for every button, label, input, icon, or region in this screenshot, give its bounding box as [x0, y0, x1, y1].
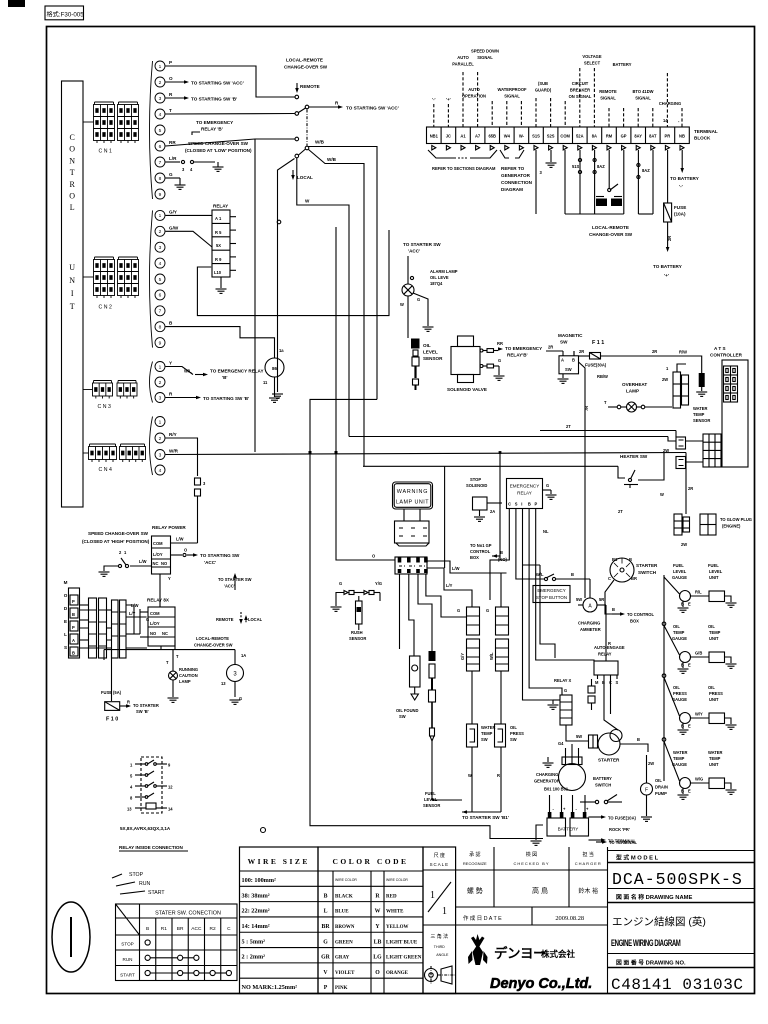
svg-text:BR: BR [321, 924, 330, 930]
svg-text:A T S: A T S [714, 346, 726, 351]
svg-text:BATTERY: BATTERY [558, 827, 579, 832]
wire control->CN2 [83, 276, 94, 278]
svg-text:GAUGE: GAUGE [672, 575, 687, 580]
S2S ground wire [550, 150, 552, 162]
svg-text:L/Y: L/Y [446, 583, 453, 588]
svg-text:SW: SW [399, 714, 406, 719]
svg-text:A7: A7 [475, 134, 481, 139]
svg-text:B: B [612, 607, 615, 612]
terminal block [427, 127, 690, 144]
svg-text:2: 2 [159, 229, 162, 235]
svg-text:A1: A1 [460, 134, 466, 139]
relay bottom ground [220, 277, 222, 288]
svg-text:9: 9 [159, 340, 162, 346]
emergency relay pin wires [508, 512, 510, 553]
svg-text:6: 6 [159, 293, 162, 299]
svg-text:SW: SW [565, 367, 572, 372]
svg-text:WIRE COLOR: WIRE COLOR [335, 878, 357, 882]
svg-text:DRAIN: DRAIN [655, 785, 668, 790]
connector CN2 [94, 260, 115, 296]
model connectors B [112, 600, 119, 658]
svg-text:WATERPROOF: WATERPROOF [497, 87, 527, 92]
wire pin6 RR [166, 139, 256, 146]
bus line B [349, 436, 668, 438]
svg-text:B: B [72, 612, 75, 617]
svg-text:YELLOW: YELLOW [386, 925, 409, 930]
svg-text:'ACC': 'ACC' [408, 249, 420, 254]
wire control->CN4 [83, 452, 89, 454]
svg-text:LEVEL: LEVEL [423, 350, 438, 355]
svg-text:CN1: CN1 [99, 149, 114, 155]
refer to generator connection diagram brace [500, 150, 509, 158]
svg-text:MAGNETIC: MAGNETIC [558, 333, 583, 338]
svg-text:GUARD): GUARD) [535, 88, 552, 93]
svg-text:RELAY INSIDE CONNECTION: RELAY INSIDE CONNECTION [119, 845, 183, 850]
svg-text:B: B [637, 737, 640, 742]
svg-text:REMOTE: REMOTE [300, 84, 320, 89]
svg-text:B: B [629, 557, 632, 562]
svg-text:RECOGNIZE: RECOGNIZE [463, 861, 487, 866]
svg-text:22: 22mm²: 22: 22mm² [242, 908, 270, 915]
svg-text:OIL LEVE: OIL LEVE [430, 275, 449, 280]
svg-text:(CLOSED AT 'LOW' POSITION): (CLOSED AT 'LOW' POSITION) [185, 148, 252, 153]
alarm lamp [402, 284, 414, 296]
wire G/W pin2 CN2 [166, 231, 213, 247]
svg-text:BREAKER: BREAKER [570, 88, 590, 93]
svg-text:B: B [528, 502, 531, 507]
svg-text:WATER: WATER [708, 750, 723, 755]
svg-text:L10: L10 [214, 270, 222, 275]
svg-text:RELAY'B': RELAY'B' [507, 353, 528, 358]
svg-text:RUSH: RUSH [351, 630, 363, 635]
title block model [608, 850, 756, 852]
svg-text:6: 6 [159, 144, 162, 150]
svg-text:O: O [375, 970, 380, 976]
svg-text:格式:F30-005: 格式:F30-005 [47, 11, 85, 19]
svg-text:LEVEL: LEVEL [673, 569, 687, 574]
oil found sw [410, 656, 421, 687]
svg-text:螺 勢: 螺 勢 [467, 886, 483, 895]
svg-text:CN2: CN2 [99, 305, 114, 311]
emergency relay ground [543, 489, 552, 491]
svg-text:M: M [595, 680, 599, 685]
svg-text:G: G [457, 608, 460, 613]
svg-text:W-: W- [519, 134, 525, 139]
svg-text:9: 9 [159, 192, 162, 198]
svg-text:L/W: L/W [176, 537, 184, 542]
svg-text:(ENGINE): (ENGINE) [722, 524, 741, 529]
svg-text:TEMP: TEMP [693, 412, 705, 417]
wires lamp unit to connector [403, 509, 405, 521]
svg-text:'ACC': 'ACC' [224, 584, 235, 589]
wire W [297, 158, 349, 437]
svg-text:SCALE: SCALE [430, 862, 449, 867]
svg-text:38: 38mm²: 38: 38mm² [242, 892, 270, 899]
svg-text:TEMP: TEMP [709, 630, 721, 635]
svg-text:GAUGE: GAUGE [672, 697, 687, 702]
relay power COM wire [171, 542, 198, 544]
svg-text:CHARGING: CHARGING [578, 621, 600, 626]
oil press sw [500, 671, 502, 724]
wire starter B [620, 744, 648, 752]
svg-text:SW: SW [560, 340, 568, 345]
svg-text:3: 3 [159, 245, 162, 251]
svg-text:3: 3 [159, 452, 162, 458]
svg-text:8: 8 [159, 176, 162, 182]
svg-text:TO EMERGENCY: TO EMERGENCY [196, 120, 233, 125]
svg-text:NL: NL [543, 529, 549, 534]
svg-text:LAMP UNIT: LAMP UNIT [396, 500, 429, 506]
wire W/B upper [309, 147, 378, 400]
svg-text:TO No1 GP: TO No1 GP [470, 543, 492, 548]
svg-text:4: 4 [159, 261, 162, 267]
starter wires [604, 679, 618, 730]
svg-text:L/Y: L/Y [129, 611, 136, 616]
svg-text:B: B [572, 358, 575, 363]
svg-text:BOX: BOX [630, 619, 639, 624]
svg-text:1A: 1A [241, 653, 246, 658]
svg-text:三 角 法: 三 角 法 [430, 933, 448, 940]
svg-text:NB1: NB1 [430, 134, 439, 139]
svg-text:B1: B1 [612, 557, 618, 562]
svg-text:SENSOR: SENSOR [423, 803, 440, 808]
svg-text:2T: 2T [618, 509, 623, 514]
svg-text:NO: NO [150, 631, 157, 636]
svg-text:4: 4 [159, 112, 162, 118]
svg-text:1: 1 [442, 906, 447, 917]
running caution lamp [169, 671, 178, 680]
svg-text:A: A [72, 638, 75, 643]
fuel level sensor [429, 651, 436, 661]
svg-text:A: A [561, 358, 564, 363]
svg-text:鈴木 裕: 鈴木 裕 [578, 887, 598, 895]
svg-text:8AZ: 8AZ [597, 164, 605, 169]
svg-text:COM: COM [150, 611, 160, 616]
svg-text:8AZ: 8AZ [642, 168, 650, 173]
water temp sensor [699, 373, 705, 387]
svg-text:SIGNAL: SIGNAL [477, 55, 493, 60]
svg-text:UNIT: UNIT [709, 697, 719, 702]
svg-text:STARTER: STARTER [598, 758, 620, 763]
svg-text:SIGNAL: SIGNAL [504, 94, 520, 99]
svg-text:14: 14mm²: 14: 14mm² [242, 923, 270, 930]
svg-text:G: G [498, 358, 501, 363]
svg-text:図 面 名 称 DRAWING NAME: 図 面 名 称 DRAWING NAME [616, 893, 692, 901]
svg-text:L/OY: L/OY [153, 552, 163, 557]
svg-text:RR: RR [497, 341, 503, 346]
svg-text:Y: Y [169, 361, 172, 366]
svg-text:W/B: W/B [327, 157, 337, 162]
svg-text:LIGHT BLUE: LIGHT BLUE [386, 940, 418, 945]
svg-text:STATER SW. CONECTION: STATER SW. CONECTION [155, 911, 221, 917]
svg-text:S: S [64, 645, 67, 650]
warning lamp connector upper [395, 521, 430, 543]
wire control->CN3 [83, 389, 93, 391]
svg-text:図 面 番 号 DRAWING NO.: 図 面 番 号 DRAWING NO. [616, 959, 686, 967]
svg-text:8A: 8A [592, 134, 597, 139]
svg-text:OIL: OIL [708, 624, 715, 629]
corner scan mark [8, 0, 25, 7]
svg-text:B: B [72, 651, 75, 656]
svg-text:PRESS: PRESS [510, 731, 524, 736]
svg-text:UNIT: UNIT [709, 762, 719, 767]
svg-text:2: 2 [159, 436, 162, 442]
svg-text:TO STARTER: TO STARTER [133, 703, 159, 708]
svg-text:EMERGENCY: EMERGENCY [510, 484, 540, 489]
svg-text:T: T [169, 108, 172, 113]
svg-text:14: 14 [168, 807, 173, 812]
svg-text:'-': '-' [432, 97, 435, 102]
water temp sw [471, 671, 473, 724]
svg-text:SW 'B': SW 'B' [136, 709, 149, 714]
key switch ellipse [52, 902, 90, 972]
svg-text:FUSE (5A): FUSE (5A) [101, 690, 122, 695]
svg-text:S: S [616, 680, 619, 685]
scale block [423, 847, 456, 994]
svg-text:ALARM LAMP: ALARM LAMP [430, 269, 458, 274]
svg-text:A 1: A 1 [215, 216, 222, 221]
svg-text:B: B [500, 550, 503, 555]
svg-text:尺 度: 尺 度 [434, 852, 445, 859]
svg-text:作 成 日 D A T E: 作 成 日 D A T E [463, 914, 502, 922]
svg-text:株式会社: 株式会社 [541, 949, 576, 959]
svg-text:L: L [324, 909, 328, 915]
svg-text:LIGHT GREEN: LIGHT GREEN [386, 956, 422, 961]
svg-text:W: W [305, 199, 310, 204]
svg-text:CN3: CN3 [98, 404, 113, 410]
warning lamp unit [393, 482, 433, 509]
svg-text:1: 1 [159, 64, 162, 70]
svg-text:W: W [660, 492, 664, 497]
svg-text:TEMP: TEMP [709, 756, 721, 761]
svg-text:B: B [571, 572, 574, 577]
svg-text:LOCAL-REMOTE: LOCAL-REMOTE [196, 636, 229, 641]
svg-text:BROWN: BROWN [335, 925, 355, 930]
svg-text:エンジン結線図 (英): エンジン結線図 (英) [612, 915, 706, 928]
svg-text:P: P [324, 985, 328, 991]
svg-text:2R: 2R [548, 345, 553, 350]
svg-text:(CLOSED AT 'HIGH' POSITION): (CLOSED AT 'HIGH' POSITION) [82, 539, 150, 544]
wire to F10 [111, 650, 113, 701]
svg-text:TO CONTROL: TO CONTROL [627, 612, 654, 617]
svg-text:13: 13 [221, 681, 226, 686]
svg-text:RR: RR [169, 140, 176, 145]
wire R pin3 CN3 [166, 397, 197, 399]
svg-text:TO STARTING SW: TO STARTING SW [200, 553, 240, 558]
svg-text:I: I [521, 502, 522, 507]
svg-text:OVERHEAT: OVERHEAT [622, 382, 647, 387]
svg-text:TO STARTING SW 'ACC': TO STARTING SW 'ACC' [191, 81, 244, 86]
wire to alarm lamp [407, 256, 409, 284]
svg-text:AUTO-ENGAGE: AUTO-ENGAGE [594, 645, 625, 650]
svg-text:TO STARTING SW 'B': TO STARTING SW 'B' [191, 97, 237, 102]
svg-text:LAMP: LAMP [626, 389, 639, 394]
svg-text:5X: 5X [216, 243, 221, 248]
solenoid valve [451, 347, 480, 375]
svg-text:BTO 41DW: BTO 41DW [632, 89, 653, 94]
svg-text:11: 11 [263, 380, 268, 385]
svg-text:CHARGER: CHARGER [575, 861, 602, 866]
wire ammeter down [605, 605, 607, 661]
svg-text:G: G [486, 608, 489, 613]
switch drop wires [471, 747, 473, 800]
svg-text:L: L [70, 203, 75, 212]
svg-text:2T: 2T [566, 424, 571, 429]
svg-text:14: 14 [663, 118, 668, 123]
svg-text:VOLTAGE: VOLTAGE [582, 54, 601, 59]
svg-text:BATTERY: BATTERY [613, 62, 632, 67]
svg-text:L/W: L/W [452, 566, 460, 571]
svg-text:SELECT: SELECT [584, 61, 601, 66]
battery 1 [547, 818, 566, 836]
svg-text:WATER: WATER [481, 725, 496, 730]
svg-text:WATER: WATER [673, 750, 688, 755]
svg-text:TEMP: TEMP [481, 731, 493, 736]
wire R/Y pin2 CN4 [166, 438, 198, 476]
svg-text:8AT: 8AT [649, 134, 657, 139]
svg-text:G4: G4 [558, 741, 564, 746]
svg-text:SW: SW [481, 737, 488, 742]
svg-text:TO EMERGENCY: TO EMERGENCY [505, 346, 542, 351]
svg-text:BLOCK: BLOCK [694, 136, 711, 141]
svg-text:OIL: OIL [510, 725, 517, 730]
svg-text:Y/G: Y/G [375, 581, 382, 586]
svg-text:OIL: OIL [673, 685, 680, 690]
svg-text:SIGNAL: SIGNAL [635, 96, 651, 101]
svg-text:WATER: WATER [693, 406, 708, 411]
svg-text:2W: 2W [681, 542, 687, 547]
svg-text:5R: 5R [599, 597, 604, 602]
battery 2 [570, 818, 589, 836]
svg-text:RELAY: RELAY [598, 652, 612, 657]
approval block [493, 847, 495, 907]
svg-text:B: B [324, 893, 328, 899]
wire RB/W [579, 362, 586, 380]
svg-text:I: I [71, 289, 74, 298]
wire RB/W down to ammeter [584, 380, 586, 598]
svg-text:AMMETER: AMMETER [580, 627, 601, 632]
terminal block top dashed wires [433, 104, 435, 127]
svg-text:DIAGRAM: DIAGRAM [501, 187, 523, 192]
svg-text:R/W: R/W [679, 350, 687, 355]
svg-text:C: C [70, 133, 75, 142]
wire G/Y pin1 CN2 [166, 214, 213, 216]
svg-text:PUMP: PUMP [655, 791, 667, 796]
pin circles CN4 [150, 417, 153, 476]
wire heater to connector [638, 453, 664, 481]
svg-text:START: START [120, 973, 135, 978]
to glow plug connector [700, 514, 716, 535]
svg-text:DCA-500SPK-S: DCA-500SPK-S [612, 870, 743, 889]
svg-text:5: 5 [159, 277, 162, 283]
svg-text:LAMP: LAMP [179, 679, 191, 684]
svg-text:52A: 52A [576, 134, 584, 139]
svg-text:LOCAL: LOCAL [248, 617, 263, 622]
gauge bus [663, 575, 665, 781]
hour meter [265, 358, 284, 377]
svg-text:COLOR CODE: COLOR CODE [332, 857, 408, 866]
svg-text:2R: 2R [579, 349, 584, 354]
svg-text:W/L: W/L [536, 572, 544, 577]
svg-text:E: E [688, 602, 691, 607]
svg-text:L/OY: L/OY [150, 621, 160, 626]
charging ammeter [583, 598, 597, 612]
svg-text:P: P [72, 599, 75, 604]
svg-text:FUSE(30A): FUSE(30A) [585, 363, 607, 368]
connector CN4 [89, 447, 117, 460]
svg-text:2W: 2W [662, 377, 668, 382]
svg-text:86: 86 [272, 366, 278, 371]
svg-text:R: R [70, 180, 76, 189]
glow plug connector pair [674, 514, 682, 535]
svg-text:FUEL: FUEL [425, 791, 436, 796]
oil drain pump [641, 783, 653, 795]
svg-text:BOX: BOX [470, 555, 479, 560]
svg-text:R 9: R 9 [215, 257, 222, 262]
starter switch [610, 558, 634, 582]
svg-text:O: O [69, 192, 75, 201]
svg-text:L/W: L/W [139, 559, 147, 564]
wire R to starting sw acc [309, 106, 338, 108]
svg-text:PARALLEL: PARALLEL [452, 62, 474, 67]
svg-text:SPEED CHANGE-OVER SW: SPEED CHANGE-OVER SW [88, 531, 149, 536]
svg-text:REMOTE: REMOTE [216, 617, 234, 622]
resistor pair [588, 686, 595, 693]
wire B pin8 CN2 to hour meter [166, 327, 275, 358]
svg-text:G/Y: G/Y [460, 653, 465, 660]
to control box arrow [605, 580, 614, 614]
svg-text:G: G [564, 688, 567, 693]
emergency stop button [544, 577, 547, 580]
svg-text:NO: NO [161, 561, 168, 566]
svg-text:TO STARTING SW 'ACC': TO STARTING SW 'ACC' [346, 106, 399, 111]
svg-text:BLUE: BLUE [335, 910, 349, 915]
svg-text:2W: 2W [648, 761, 654, 766]
svg-text:REMOTE: REMOTE [599, 89, 617, 94]
svg-text:T: T [70, 302, 75, 311]
lamp ground wire [413, 293, 428, 326]
wire W/B lower [309, 150, 365, 467]
battery arrows [589, 816, 602, 818]
connector CN3 [93, 383, 113, 396]
svg-text:STOP: STOP [470, 477, 481, 482]
svg-text:W/B: W/B [315, 140, 325, 145]
svg-text:O: O [64, 593, 68, 598]
svg-text:SWITCH: SWITCH [638, 570, 657, 575]
relay pin long wire [197, 230, 389, 316]
connector D1 [676, 437, 686, 449]
warning lamp connector lower [395, 557, 427, 574]
svg-text:2A: 2A [490, 509, 495, 514]
svg-text:ORANGE: ORANGE [386, 971, 409, 976]
svg-text:C: C [608, 576, 611, 581]
52A wire [579, 150, 581, 214]
svg-text:AUTO: AUTO [468, 87, 480, 92]
svg-text:高 鳥: 高 鳥 [532, 886, 548, 895]
svg-text:W: W [400, 302, 404, 307]
svg-text:RELAY X: RELAY X [554, 678, 572, 683]
pin circles CN2 [150, 210, 153, 347]
svg-text:2R: 2R [667, 236, 672, 241]
svg-text:F: F [645, 788, 648, 794]
bus line D [363, 465, 618, 467]
svg-text:TO BATTERY: TO BATTERY [670, 176, 699, 181]
svg-text:GENERATOR: GENERATOR [501, 173, 531, 178]
bottom collector wires [432, 788, 462, 800]
svg-text:NO MARK:1.25mm²: NO MARK:1.25mm² [242, 984, 298, 991]
svg-text:'ACC': 'ACC' [204, 560, 216, 565]
wire W/R pin3 CN4 (long bus) [166, 453, 687, 455]
